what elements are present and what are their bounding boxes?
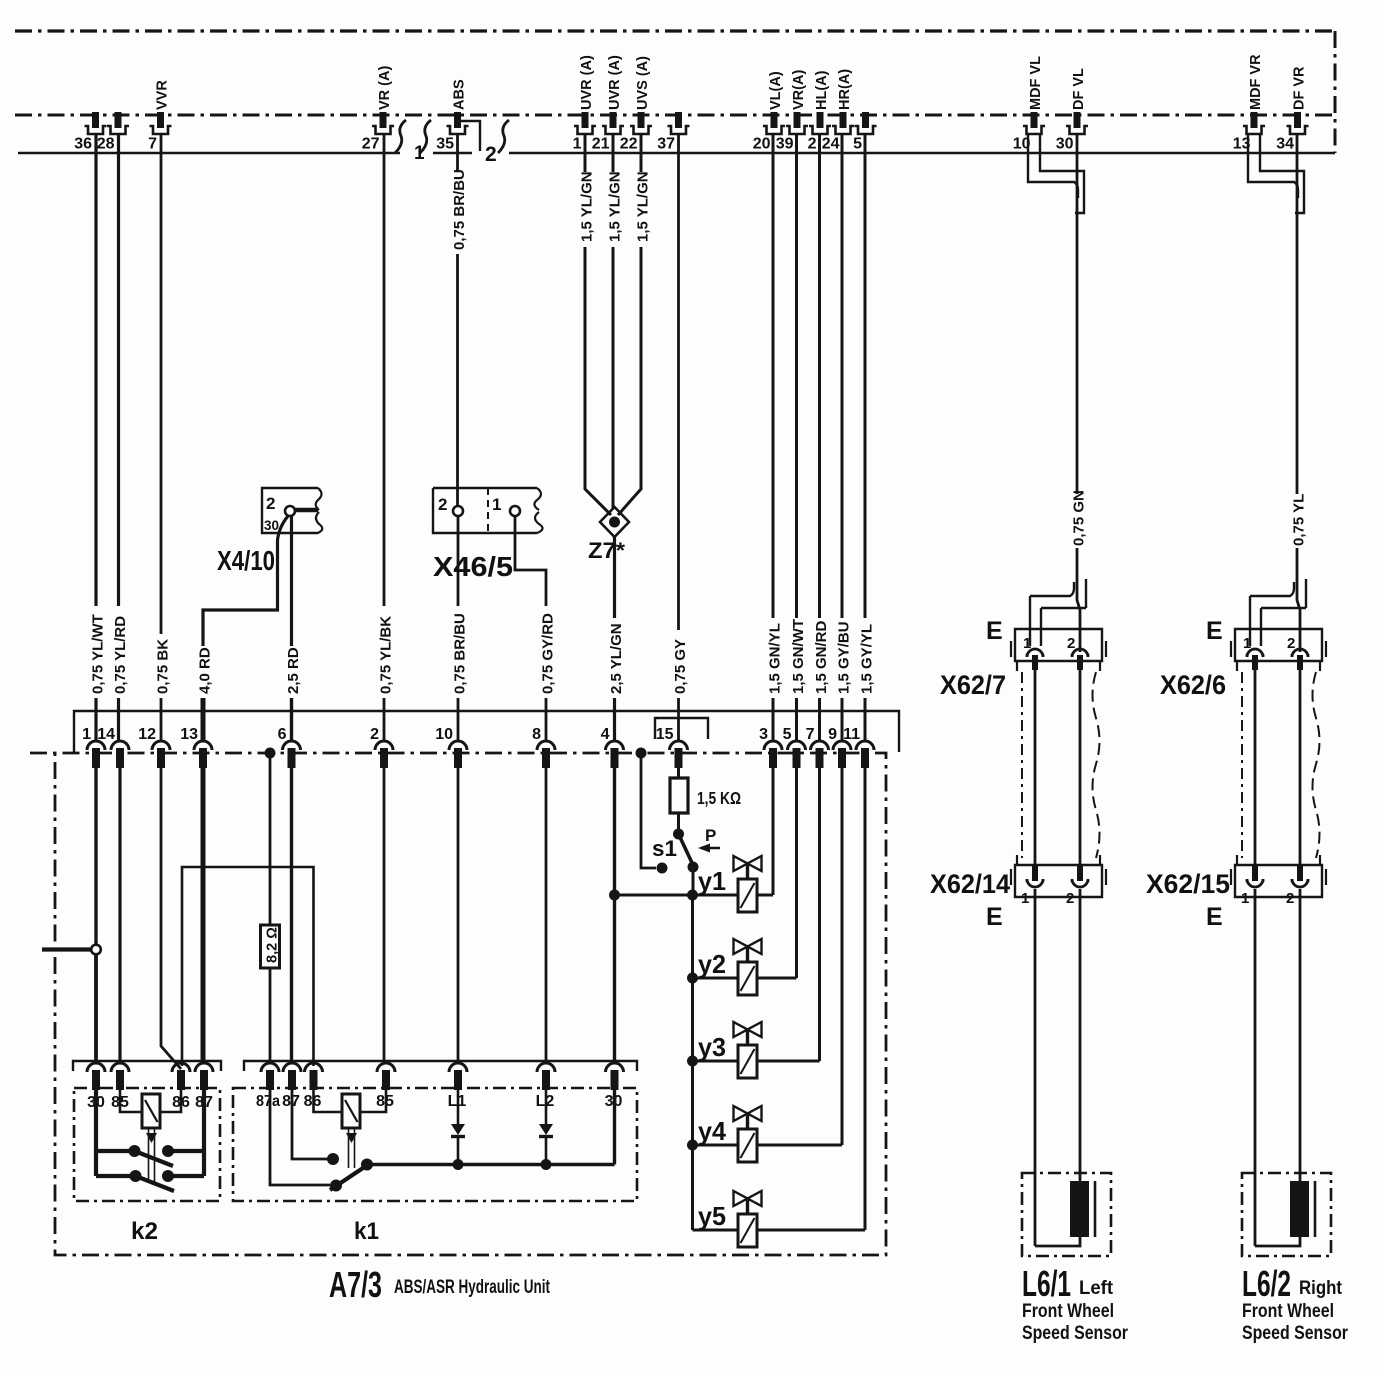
svg-text:2: 2	[1287, 635, 1295, 652]
svg-text:9: 9	[828, 726, 837, 743]
pin 7 A7/3	[811, 741, 829, 768]
arrow P	[701, 847, 720, 849]
svg-text:1: 1	[1023, 635, 1031, 652]
cable sheath dash-dot left	[1021, 672, 1023, 858]
pin 22 (top connector strip)	[630, 112, 652, 134]
wire k2:85 to coil	[120, 1090, 142, 1112]
wire s1 fixed contact to boundary	[641, 753, 656, 868]
wire 0,75 YL/RD pin28 to A7/3 pin14	[117, 134, 120, 606]
svg-text:27: 27	[362, 136, 380, 153]
svg-text:Front Wheel: Front Wheel	[1242, 1301, 1334, 1322]
wire k1 common rail	[367, 1163, 615, 1166]
svg-text:4,0 RD: 4,0 RD	[197, 647, 214, 694]
svg-text:E: E	[1206, 617, 1223, 645]
diode L2	[545, 1090, 548, 1124]
svg-text:7: 7	[806, 726, 815, 743]
wire 1,5 GY/YL pin5 to A7/3 pin11	[864, 134, 867, 618]
wire: connector strip dash-dot line	[15, 114, 1332, 117]
svg-text:A7/3: A7/3	[329, 1264, 382, 1305]
pin 2 X62/6	[1292, 649, 1308, 670]
svg-text:1,5 YL/GN: 1,5 YL/GN	[607, 171, 624, 242]
svg-text:1: 1	[1243, 635, 1251, 652]
svg-text:DF VL: DF VL	[1071, 68, 1087, 110]
svg-text:11: 11	[843, 726, 860, 743]
pin 5 (top connector strip)	[855, 112, 877, 134]
svg-text:L6/2: L6/2	[1242, 1263, 1291, 1304]
svg-text:2: 2	[808, 136, 817, 153]
pin 2 A7/3	[375, 741, 393, 768]
pin 10 A7/3	[449, 741, 467, 768]
svg-text:X62/14: X62/14	[930, 869, 1010, 899]
wire 1,5 GY/BU pin24 to A7/3 pin9	[841, 134, 844, 618]
pin 1 X62/15	[1247, 866, 1263, 887]
svg-text:ABS/ASR Hydraulic Unit: ABS/ASR Hydraulic Unit	[394, 1277, 550, 1298]
svg-text:0,75 BR/BU: 0,75 BR/BU	[452, 613, 469, 694]
wire A7/3 pin13 down to k2:87	[201, 768, 206, 1063]
wire twisted pair top (0,75 YL circuit) sheath	[1248, 133, 1298, 198]
pin 87a k1	[261, 1063, 279, 1090]
pin 85 k1	[377, 1063, 395, 1090]
wire coil bracket k2:86 to k1:86	[182, 867, 314, 1066]
svg-text:30: 30	[1056, 136, 1074, 153]
pin 36 (top connector strip)	[85, 112, 107, 134]
wire sensor L6/2 loop	[1255, 1237, 1300, 1246]
svg-text:0,75 GN: 0,75 GN	[1071, 490, 1088, 546]
wire twisted pair bottom sheath	[1250, 582, 1294, 646]
wire A7/3 pin2 down to k1:85	[383, 768, 386, 1063]
wire X62/7 pin2 to X62/14	[1079, 670, 1082, 868]
svg-text:0,75 BR/BU: 0,75 BR/BU	[451, 169, 468, 250]
wire: top dash-dot harness border	[15, 29, 1335, 32]
k2 contact blade lower	[136, 1176, 175, 1191]
solenoid valve y3	[734, 1022, 762, 1078]
svg-text:13: 13	[180, 726, 198, 743]
svg-text:MDF VL: MDF VL	[1028, 56, 1044, 110]
sensor L6/2 box	[1242, 1173, 1331, 1256]
wire 0,75 GN main run	[1076, 133, 1079, 494]
wire valve y5 to A7/3 pin	[757, 1229, 865, 1232]
svg-text:1: 1	[1241, 890, 1249, 907]
svg-text:y2: y2	[698, 949, 726, 979]
relay k2 dash-dot box	[74, 1088, 220, 1201]
resistor 8,2 ohm	[269, 753, 272, 925]
pin 2 X62/7	[1072, 649, 1088, 670]
cable sheath wavy right	[1093, 672, 1100, 858]
wire: main bus line segment 2	[433, 152, 472, 154]
pin 1 X62/6	[1247, 649, 1263, 670]
svg-text:X4/10: X4/10	[217, 545, 275, 576]
svg-text:2: 2	[485, 143, 497, 166]
svg-text:35: 35	[436, 136, 454, 153]
node: bundle brace a	[395, 120, 406, 153]
pin 87 k2	[195, 1063, 213, 1090]
pin 2 X62/15	[1292, 866, 1308, 887]
pin 86 k1	[305, 1063, 323, 1090]
wire X62/6 pin2 to X62/15	[1299, 670, 1302, 868]
svg-text:UVR (A): UVR (A)	[607, 55, 623, 110]
svg-text:2: 2	[370, 726, 379, 743]
svg-text:4: 4	[601, 726, 610, 743]
wire X62/14 pin1 to sensor	[1034, 889, 1037, 1246]
svg-text:E: E	[986, 617, 1003, 645]
node junction pin4/y1	[609, 890, 620, 901]
wire 2,5 YL/GN Z7 to A7/3 pin4	[613, 536, 616, 618]
pin 3 A7/3	[764, 741, 782, 768]
svg-text:14: 14	[97, 726, 115, 743]
svg-text:20: 20	[753, 136, 771, 153]
wire k1:87a to contact	[270, 1090, 330, 1185]
switch s1	[673, 829, 684, 840]
svg-text:y3: y3	[698, 1032, 726, 1062]
pin 1 A7/3	[87, 741, 105, 768]
wire 2,5 RD X4/10 to A7/3 pin6	[290, 516, 293, 646]
resistor 1,5 Kohm	[677, 768, 680, 778]
node: bundle brace b	[420, 120, 431, 153]
cable sheath wavy right	[1313, 672, 1320, 858]
svg-text:39: 39	[776, 136, 794, 153]
node: open junction	[91, 945, 101, 955]
svg-text:2: 2	[1286, 890, 1294, 907]
diode L1	[457, 1090, 460, 1124]
svg-text:28: 28	[97, 136, 115, 153]
wire rail to valve y5	[693, 1229, 739, 1232]
svg-text:MDF VR: MDF VR	[1248, 54, 1264, 110]
connector X62/6	[1235, 629, 1322, 661]
solenoid valve y2	[734, 939, 762, 995]
pin 2 (top connector strip)	[809, 112, 831, 134]
pin 21 (top connector strip)	[602, 112, 624, 134]
wire y1 right vertical	[772, 768, 775, 895]
svg-text:Z7*: Z7*	[588, 538, 625, 563]
pin 7 (top connector strip)	[150, 112, 172, 134]
svg-text:2: 2	[266, 494, 275, 513]
wire X62/7 pin1 to X62/14	[1034, 670, 1037, 868]
svg-text:0,75 GY: 0,75 GY	[672, 639, 689, 694]
svg-text:1: 1	[573, 136, 582, 153]
sensor L6/2 element	[1290, 1181, 1309, 1237]
svg-text:k2: k2	[131, 1218, 158, 1245]
svg-text:UVS (A): UVS (A)	[635, 56, 651, 110]
relay k1 dash-dot box	[233, 1088, 637, 1201]
connector X62/7	[1015, 629, 1102, 661]
wire 0,75 BR/BU pin35 to X46/5	[456, 134, 459, 172]
connector X62/14	[1015, 865, 1102, 897]
svg-text:0,75 YL/BK: 0,75 YL/BK	[378, 616, 395, 694]
wire 0,75 GY pin37 to A7/3 pin15	[677, 134, 680, 630]
svg-text:E: E	[1206, 903, 1223, 931]
k2 contact bars	[96, 1149, 133, 1153]
wire twisted pair bottom sheath	[1030, 582, 1074, 646]
svg-text:X62/15: X62/15	[1146, 869, 1230, 899]
svg-text:ABS: ABS	[452, 79, 468, 110]
pin 30 k1	[606, 1063, 624, 1090]
svg-text:VVR: VVR	[155, 80, 171, 110]
pin 13 A7/3	[194, 741, 212, 768]
wire A7/3 pin6 down to k1:87	[290, 768, 293, 1063]
svg-text:1,5 KΩ: 1,5 KΩ	[697, 788, 741, 808]
svg-text:1,5 GN/WT: 1,5 GN/WT	[790, 619, 807, 694]
pin 35 (top connector strip)	[447, 112, 469, 134]
wire k1:86 to coil	[314, 1090, 343, 1112]
wire 1,5 YL/GN pin22 to Z7	[640, 134, 643, 172]
pin L2 k1	[537, 1063, 555, 1090]
pin 9 A7/3	[833, 741, 851, 768]
wire twisted pair top (0,75 GN circuit) sheath	[1028, 133, 1078, 198]
connector X46/5	[433, 488, 537, 533]
wire k2:87 to contacts	[202, 1090, 206, 1176]
svg-text:34: 34	[1276, 136, 1294, 153]
wire y4 right vertical	[841, 768, 844, 1145]
pin 87 k1	[283, 1063, 301, 1090]
wire: main bus line segment 1	[18, 152, 400, 154]
wire y2 right vertical	[795, 768, 798, 978]
wire y5 right vertical	[864, 768, 867, 1230]
svg-text:1: 1	[1021, 890, 1029, 907]
svg-text:Right: Right	[1299, 1278, 1343, 1299]
k2 actuator link	[148, 1128, 150, 1182]
connector X62/15	[1235, 865, 1322, 897]
connector bracket pin15	[655, 718, 708, 739]
svg-text:10: 10	[435, 726, 453, 743]
pin 1 X62/14	[1027, 866, 1043, 887]
wire: main bus line segment 3	[509, 152, 1335, 154]
k1 contact blade	[330, 1164, 369, 1190]
pin 30 (top connector strip)	[1066, 112, 1088, 134]
k2 contact blade upper	[135, 1151, 174, 1166]
svg-text:36: 36	[74, 136, 92, 153]
wire: connector 35 bracket	[461, 121, 480, 151]
pin 24 (top connector strip)	[832, 112, 854, 134]
svg-text:12: 12	[138, 726, 156, 743]
svg-text:VR(A): VR(A)	[791, 70, 807, 110]
svg-text:1: 1	[492, 495, 501, 514]
pin 1 X62/7	[1027, 649, 1043, 670]
wire 0,75 YL/WT pin36 to A7/3 pin1	[94, 134, 97, 606]
wire X62/15 pin1 to sensor	[1254, 889, 1257, 1246]
wire valve common rail	[691, 895, 694, 1230]
svg-text:0,75 GY/RD: 0,75 GY/RD	[540, 613, 557, 694]
svg-text:y5: y5	[698, 1201, 726, 1231]
svg-text:1,5 YL/GN: 1,5 YL/GN	[579, 171, 596, 242]
svg-text:E: E	[986, 903, 1003, 931]
svg-text:8: 8	[532, 726, 541, 743]
wire 4,0 RD X4/10 to A7/3 pin13	[203, 516, 288, 646]
wire 1,5 YL/GN pin21 to Z7	[612, 134, 615, 172]
svg-text:HR(A): HR(A)	[837, 69, 853, 110]
pin 4 A7/3	[606, 741, 624, 768]
wire 0,75 YL/BK pin27 to A7/3 pin2	[383, 134, 386, 606]
wire 1,5 GN/YL pin20 to A7/3 pin3	[772, 134, 775, 618]
svg-text:L6/1: L6/1	[1022, 1263, 1071, 1304]
pin 13 (top connector strip)	[1243, 112, 1265, 134]
svg-text:X62/6: X62/6	[1160, 670, 1226, 700]
node: junction on boundary for 8,2 ohm feed	[265, 748, 276, 759]
wire valve y4 to A7/3 pin	[757, 1144, 842, 1147]
svg-text:0,75 BK: 0,75 BK	[155, 639, 172, 694]
wire X62/14 pin2 to sensor	[1079, 889, 1082, 1181]
connector bracket A7/3	[74, 711, 899, 752]
wire A7/3 pin12 down to k2:86	[161, 768, 181, 1069]
svg-text:y4: y4	[698, 1116, 727, 1146]
wire 0,75 BK pin7 to A7/3 pin12	[160, 134, 163, 634]
pin 85 k2	[111, 1063, 129, 1090]
svg-text:2: 2	[1067, 635, 1075, 652]
wire k1:30 down	[613, 1090, 616, 1165]
svg-text:1,5 GN/RD: 1,5 GN/RD	[813, 620, 830, 694]
svg-text:Speed Sensor: Speed Sensor	[1242, 1323, 1348, 1344]
cable sheath dash-dot left	[1241, 672, 1243, 858]
node: bundle brace c	[498, 120, 509, 153]
svg-text:DF VR: DF VR	[1292, 66, 1308, 110]
pin 34 (top connector strip)	[1287, 112, 1309, 134]
wire 1,5 YL/GN pin1 to Z7	[584, 134, 587, 172]
relay k2 coil	[142, 1094, 160, 1128]
wire X62/15 pin2 to sensor	[1299, 889, 1302, 1181]
svg-text:X62/7: X62/7	[940, 670, 1006, 700]
svg-text:Speed Sensor: Speed Sensor	[1022, 1323, 1128, 1344]
svg-text:5: 5	[783, 726, 792, 743]
svg-text:Front Wheel: Front Wheel	[1022, 1301, 1114, 1322]
solenoid valve y1	[734, 856, 762, 912]
svg-text:k1: k1	[354, 1218, 379, 1245]
wire valve y1 to A7/3 pin	[757, 894, 773, 897]
wire A7/3 pin1 down to k2:30	[94, 768, 97, 945]
solenoid valve y4	[734, 1106, 762, 1162]
svg-text:s1: s1	[652, 836, 677, 861]
wire k1:85 to coil	[360, 1090, 386, 1112]
wire X62/6 pin1 to X62/15	[1254, 670, 1257, 868]
pin 10 (top connector strip)	[1023, 112, 1045, 134]
svg-text:2,5 YL/GN: 2,5 YL/GN	[608, 623, 625, 694]
pin 1 (top connector strip)	[574, 112, 596, 134]
wire rail to valve y3	[693, 1060, 739, 1063]
wire 0,75 GY/RD X46/5 pin1 to A7/3 pin8	[515, 516, 546, 606]
pin 11 A7/3	[856, 741, 874, 768]
svg-text:21: 21	[592, 136, 610, 153]
wire k2:86 to coil	[160, 1090, 181, 1112]
relay k2 bracket	[73, 1061, 221, 1071]
wire 0,75 BR/BU X46/5 to A7/3 pin10	[457, 516, 460, 606]
svg-text:2: 2	[1066, 890, 1074, 907]
svg-text:HL(A): HL(A)	[814, 70, 830, 110]
pin 15 A7/3	[670, 741, 688, 768]
pin 28 (top connector strip)	[107, 112, 129, 134]
pin L1 k1	[449, 1063, 467, 1090]
pin 2 X62/14	[1072, 866, 1088, 887]
wire 1,5 GN/WT pin39 to A7/3 pin5	[795, 134, 798, 618]
sensor L6/1 element	[1070, 1181, 1089, 1237]
wire A7/3 pin4 down to relay k1 pin30	[613, 768, 616, 1063]
svg-text:1,5 YL/GN: 1,5 YL/GN	[635, 171, 652, 242]
connector X4/10	[262, 488, 318, 533]
svg-text:1: 1	[414, 143, 425, 164]
k1 actuator link	[348, 1128, 350, 1168]
node: junction on boundary for s1 feed	[636, 748, 647, 759]
svg-text:1,5 GN/YL: 1,5 GN/YL	[767, 623, 784, 694]
splice Z7	[600, 507, 629, 537]
wire A7/3 pin14 down to k2:85	[118, 768, 121, 1063]
solenoid valve y5	[734, 1191, 762, 1247]
pin 39 (top connector strip)	[786, 112, 808, 134]
svg-text:0,75 YL/RD: 0,75 YL/RD	[112, 616, 129, 694]
svg-text:UVR (A): UVR (A)	[579, 55, 595, 110]
svg-text:X46/5: X46/5	[433, 551, 513, 582]
wire rail to valve y1	[615, 894, 739, 897]
svg-text:P: P	[705, 826, 716, 845]
svg-text:3: 3	[759, 726, 768, 743]
svg-text:22: 22	[620, 136, 638, 153]
svg-text:7: 7	[148, 136, 157, 153]
svg-text:1: 1	[82, 726, 91, 743]
wire k2:30 to contacts	[94, 1090, 98, 1176]
svg-text:2: 2	[438, 495, 447, 514]
wire k1:87 to fixed contact	[292, 1090, 328, 1159]
wire valve y2 to A7/3 pin	[757, 977, 797, 980]
wire A7/3 pin10 down to diode L1	[457, 768, 460, 1063]
svg-text:24: 24	[822, 136, 840, 153]
svg-text:37: 37	[657, 136, 675, 153]
svg-text:5: 5	[853, 136, 862, 153]
pin 12 A7/3	[152, 741, 170, 768]
pin 20 (top connector strip)	[763, 112, 785, 134]
svg-text:15: 15	[656, 726, 674, 743]
svg-text:Left: Left	[1079, 1278, 1114, 1299]
wire 1,5 GN/RD pin2 to A7/3 pin7	[818, 134, 821, 618]
svg-text:y1: y1	[698, 866, 726, 896]
svg-text:VR (A): VR (A)	[377, 66, 393, 110]
wire resistor to switch s1	[677, 813, 680, 834]
pin 5 A7/3	[788, 741, 806, 768]
wire ground stub left	[42, 947, 92, 951]
pin 37 (top connector strip)	[668, 112, 690, 134]
pin 8 A7/3	[537, 741, 555, 768]
wire rail to valve y4	[693, 1144, 739, 1147]
wire rail to valve y2	[693, 977, 739, 980]
wire A7/3 pin8 down to diode L2	[545, 768, 548, 1063]
wire valve y3 to A7/3 pin	[757, 1060, 820, 1063]
svg-text:87a: 87a	[256, 1093, 280, 1110]
wire 8,2 ohm to k1:87a	[269, 968, 272, 1063]
svg-text:8,2 Ω: 8,2 Ω	[265, 927, 281, 963]
svg-text:1,5 GY/BU: 1,5 GY/BU	[836, 621, 853, 694]
svg-text:1,5 GY/YL: 1,5 GY/YL	[859, 624, 876, 694]
wire y3 right vertical	[818, 768, 821, 1061]
wire s1 to valve rail	[692, 867, 695, 895]
sensor L6/1 box	[1022, 1173, 1111, 1256]
A7/3 dash-dot box	[30, 753, 886, 1255]
wire 0,75 YL main run	[1296, 133, 1299, 494]
wire: right dash-dot border	[1334, 31, 1337, 153]
svg-text:2,5 RD: 2,5 RD	[285, 647, 302, 694]
pin 27 (top connector strip)	[372, 112, 394, 134]
relay k1 coil	[342, 1094, 360, 1128]
svg-text:0,75 YL/WT: 0,75 YL/WT	[90, 614, 107, 694]
pin 86 k2	[172, 1063, 190, 1090]
pin 14 A7/3	[111, 741, 129, 768]
wire sensor L6/1 loop	[1035, 1237, 1080, 1246]
relay k1 bracket	[244, 1061, 637, 1071]
pin 6 A7/3	[283, 741, 301, 768]
svg-text:30: 30	[264, 518, 279, 533]
svg-text:6: 6	[278, 726, 287, 743]
pin 30 k2	[87, 1063, 105, 1090]
svg-text:VL(A): VL(A)	[768, 71, 784, 110]
svg-text:0,75 YL: 0,75 YL	[1291, 494, 1308, 546]
